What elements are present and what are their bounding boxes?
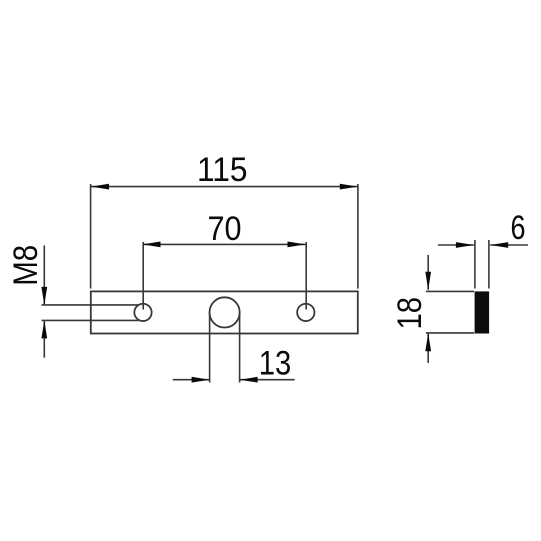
M8 text (rotated) bbox=[7, 245, 45, 286]
13 dim line left segment with arrow bbox=[173, 377, 210, 383]
svg-text:M8: M8 bbox=[7, 245, 45, 286]
6 dim extension line left bbox=[474, 240, 476, 289]
115 dim extension line left bbox=[90, 184, 92, 289]
center hole dia 13 bbox=[210, 297, 240, 327]
M8 thread leader line top bbox=[42, 304, 139, 306]
M8 thread leader line bottom bbox=[42, 319, 140, 321]
13 dim extension line left bbox=[209, 312, 211, 382]
18 dim arrow bottom bbox=[425, 333, 431, 363]
6 dim line left segment with arrow bbox=[438, 242, 474, 248]
115 dim text bbox=[197, 151, 248, 189]
6 dim extension line right bbox=[488, 240, 490, 289]
13 dim extension line right bbox=[239, 312, 241, 382]
70 dim text bbox=[208, 210, 242, 248]
70 dim extension line left bbox=[142, 242, 144, 310]
13 dim line right segment with arrow bbox=[240, 377, 295, 383]
70 dimension line bbox=[143, 242, 306, 248]
18 dim extension line bottom bbox=[426, 332, 474, 334]
M8 dim arrow bottom bbox=[41, 320, 47, 357]
115 dimension line bbox=[91, 184, 358, 190]
18 dim arrow top bbox=[425, 255, 431, 290]
svg-text:6: 6 bbox=[511, 209, 526, 247]
svg-text:18: 18 bbox=[391, 297, 429, 330]
70 dim extension line right bbox=[305, 242, 307, 310]
6 dim line right segment with arrow bbox=[490, 242, 528, 248]
M8 dim arrow top bbox=[41, 246, 47, 305]
right M8 hole bbox=[297, 304, 314, 321]
115 dim extension line right bbox=[357, 184, 359, 289]
6 dim text bbox=[511, 209, 526, 247]
18 dim text (rotated) bbox=[391, 297, 429, 330]
svg-text:115: 115 bbox=[197, 151, 248, 189]
18 dim extension line top bbox=[426, 290, 474, 292]
left M8 hole bbox=[134, 304, 151, 321]
svg-text:13: 13 bbox=[259, 344, 292, 382]
13 dim text bbox=[259, 344, 292, 382]
side view solid section bbox=[475, 291, 490, 333]
plate outline (front view) bbox=[91, 291, 358, 333]
svg-text:70: 70 bbox=[208, 210, 242, 248]
